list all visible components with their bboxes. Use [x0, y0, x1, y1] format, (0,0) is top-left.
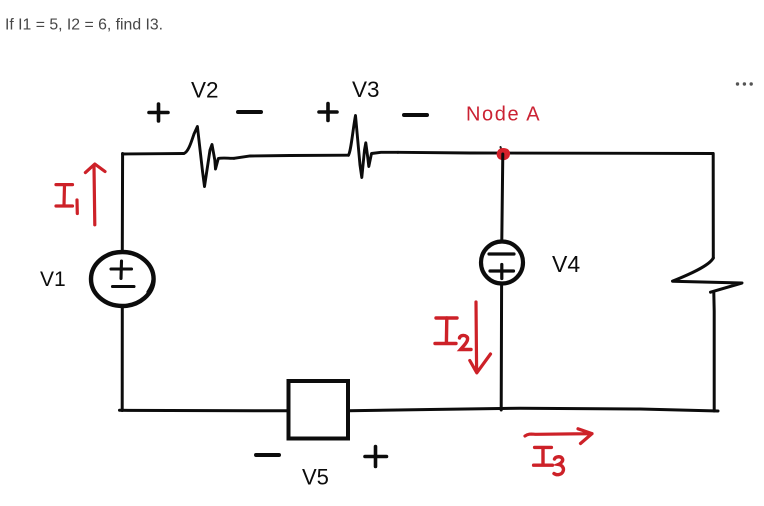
current I3 label — [534, 447, 564, 474]
svg-text:If I1 = 5, I2 = 6, find I3.: If I1 = 5, I2 = 6, find I3. — [5, 17, 163, 34]
node A junction tick — [501, 147, 502, 150]
voltage source V4 — [481, 242, 523, 284]
wire top-left segment — [123, 152, 184, 155]
plus right of V5 — [365, 447, 387, 467]
source element V3 (hand-drawn spike) — [348, 116, 398, 178]
component V5 box — [289, 381, 349, 439]
break element right side — [673, 258, 743, 292]
wire left lower — [121, 308, 124, 411]
wire right lower — [712, 293, 715, 412]
node A dot — [497, 149, 509, 160]
svg-text:V4: V4 — [552, 251, 580, 277]
current I1 arrow — [85, 164, 105, 225]
voltage source V1 — [91, 252, 154, 306]
minus left of V5 — [256, 453, 279, 457]
wire left upper — [121, 154, 124, 250]
V4 plus — [490, 265, 514, 279]
wire bottom right segment — [348, 408, 718, 411]
current I2 arrow — [470, 302, 491, 373]
svg-text:V2: V2 — [191, 78, 219, 103]
wire middle lower (V4 to bottom) — [500, 285, 503, 410]
minus right of V3 — [404, 113, 427, 117]
wire top-right segment to node A and corner — [398, 152, 713, 153]
current I1 label — [56, 185, 77, 214]
current I2 label — [435, 318, 471, 350]
plus left of V2 — [149, 104, 168, 121]
wire bottom left segment — [120, 409, 289, 413]
wire top-middle segment — [234, 155, 348, 158]
svg-text:V3: V3 — [352, 77, 380, 102]
ellipsis menu dots — [736, 82, 753, 85]
V4 minus — [489, 252, 514, 255]
V1 plus — [111, 261, 132, 279]
source element V2 (hand-drawn spike) — [184, 127, 234, 187]
current I3 arrow — [525, 429, 592, 444]
minus right of V2 — [238, 110, 261, 114]
wire middle upper (node A to V4) — [502, 154, 503, 240]
V1 minus — [113, 285, 135, 288]
svg-text:Node A: Node A — [466, 104, 541, 126]
svg-text:V1: V1 — [40, 268, 66, 291]
svg-text:V5: V5 — [302, 465, 329, 490]
wire right upper — [712, 154, 715, 259]
plus left of V3 — [319, 104, 337, 121]
